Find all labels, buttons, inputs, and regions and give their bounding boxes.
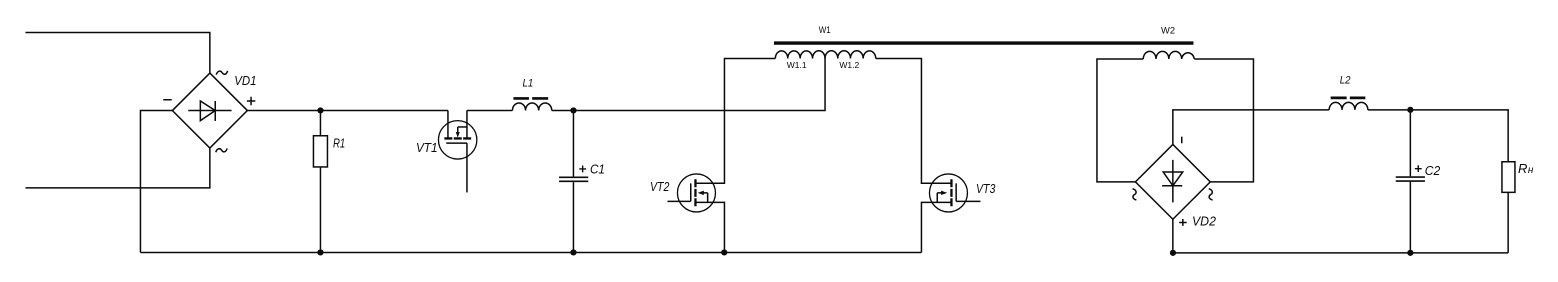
svg-text:L2: L2 xyxy=(1340,75,1351,87)
svg-text:R1: R1 xyxy=(333,136,345,151)
label VD2 minus tick xyxy=(1181,137,1183,144)
wire W1.2 to VT3 drain xyxy=(876,58,952,183)
wire L1 to W1 centre tap (top rail) xyxy=(552,58,825,110)
wire bottom rail primary xyxy=(140,251,921,253)
svg-text:VT1: VT1 xyxy=(416,140,438,155)
label VD1 plus sign xyxy=(247,97,256,106)
svg-text:W2: W2 xyxy=(1161,25,1175,36)
wire bottom rail secondary xyxy=(1173,252,1508,254)
transistor VT3 xyxy=(921,174,980,253)
transistor VT2 xyxy=(667,174,724,253)
wire AC input bottom xyxy=(25,148,209,188)
wire VD1 minus to bottom rail xyxy=(140,111,172,253)
resistor Rn load xyxy=(1502,162,1515,253)
label VD1 AC tilde bottom xyxy=(216,148,227,152)
node R1 bottom junction xyxy=(317,249,323,255)
node C1 top junction xyxy=(570,107,576,113)
node R1 top junction xyxy=(317,107,323,113)
wire L2 to load (top rail) xyxy=(1368,110,1508,162)
node VD2 bottom junction xyxy=(1170,250,1176,256)
svg-text:VT2: VT2 xyxy=(650,179,670,194)
resistor R1 xyxy=(313,110,327,252)
label VD2 AC tilde left xyxy=(1133,189,1137,200)
label C2 plus sign xyxy=(1415,165,1422,172)
secondary winding W2 xyxy=(1143,51,1194,59)
bridge rectifier VD1 xyxy=(172,73,247,148)
transistor VT1 xyxy=(438,110,476,192)
node C2 top junction xyxy=(1407,107,1413,113)
svg-text:C2: C2 xyxy=(1425,163,1441,178)
label VD2 plus sign xyxy=(1179,219,1187,226)
wire W2 right to VD2 xyxy=(1194,59,1253,182)
svg-text:VD2: VD2 xyxy=(1192,214,1217,229)
wire VD2 top to output rail xyxy=(1173,110,1329,145)
transformer core W1/W2 xyxy=(774,41,1193,44)
svg-text:L1: L1 xyxy=(522,77,533,89)
wire W2 left to VD2 xyxy=(1097,59,1143,182)
wire VD1 plus to VT1 (top rail) xyxy=(247,110,448,112)
inductor L1 xyxy=(512,98,551,110)
label VD2 AC tilde right xyxy=(1209,189,1213,200)
svg-text:C1: C1 xyxy=(590,162,605,177)
label VD1 minus sign xyxy=(163,99,172,101)
inductor L2 xyxy=(1329,98,1368,110)
node C1 bottom junction xyxy=(570,249,576,255)
svg-text:W1.1: W1.1 xyxy=(787,60,807,70)
winding W1.1 xyxy=(775,51,825,59)
capacitor C2 xyxy=(1396,110,1425,253)
svg-text:VD1: VD1 xyxy=(234,73,256,88)
wire VT1 to L1 (top rail) xyxy=(467,109,513,111)
bridge rectifier VD2 xyxy=(1135,144,1210,219)
wire VD2 bottom to output rail xyxy=(1172,219,1174,253)
label VD1 AC tilde top xyxy=(216,71,227,75)
wire AC input top xyxy=(25,32,209,73)
node C2 bottom junction xyxy=(1407,250,1413,256)
svg-text:W1.2: W1.2 xyxy=(839,60,859,70)
svg-text:VT3: VT3 xyxy=(976,181,996,196)
wire W1.1 to VT2 drain xyxy=(695,58,775,183)
label C1 plus sign xyxy=(579,166,586,173)
svg-text:Rн: Rн xyxy=(1518,161,1534,176)
winding W1.2 xyxy=(825,51,876,59)
node VT2 source junction xyxy=(721,249,727,255)
capacitor C1 xyxy=(559,110,588,252)
svg-text:W1: W1 xyxy=(819,25,831,36)
